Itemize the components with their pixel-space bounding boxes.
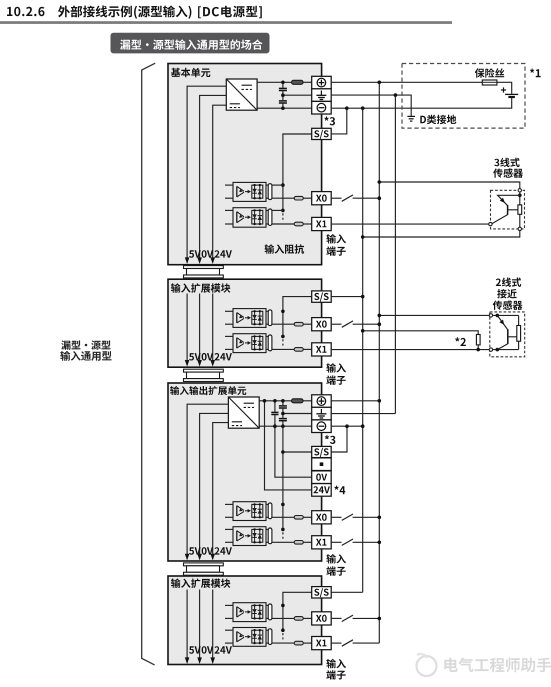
input circuit B4-X1: bottom wire stub (225, 642, 233, 644)
B3 +24V line (259, 400, 291, 402)
node: ground bus top (394, 93, 398, 97)
label *4 (334, 486, 345, 495)
extension cable connector 2 (184, 369, 224, 372)
label *2 (455, 337, 466, 346)
wire: 24V bus to 2-wire sensor (379, 314, 489, 316)
input circuit B4-X1: top wire stub (225, 629, 233, 631)
label: 3-wire sensor (494, 158, 519, 167)
input circuit B4-X1: capacitor (268, 629, 272, 645)
extension cable connector 1 (184, 266, 224, 269)
input circuit B3-X1: diode D1 (254, 529, 256, 542)
input circuit B1-X1: diode D2 (259, 210, 261, 224)
input circuit B1-X0: series resistor (272, 197, 294, 199)
wire: battery - to minus terminal (331, 97, 512, 108)
title: base unit (171, 68, 211, 77)
label: 2-wire proximity sensor (496, 278, 521, 287)
title: I/O expansion unit (170, 386, 246, 395)
B1 +24V line (plus terminal wire) (257, 81, 291, 83)
input circuit B3-X1: LED pair box (252, 529, 263, 542)
input circuit B2-X0: series resistor (272, 323, 294, 325)
bleeder resistor circuit *2 (363, 331, 479, 335)
terminal X0 B1 (312, 192, 332, 205)
node: B1 rail/+24V (281, 81, 285, 85)
label 5V B4 (189, 646, 201, 653)
wire: 0V bus to 3-wire sensor 0V (363, 231, 520, 237)
input circuit B4-X0: optocoupler box (233, 603, 266, 622)
2w sensor transistor Q2 (497, 315, 507, 329)
dashed box *1 external supply (402, 64, 525, 129)
input circuit B3-X0: optocoupler box (233, 502, 266, 521)
terminal +V B1 (312, 76, 332, 89)
2w sensor internal wiring (493, 314, 519, 316)
2w sensor resistor (517, 326, 521, 342)
input circuit B4-X1: diode D2 (259, 630, 261, 643)
wire: B3 S/S jumper to minus line (331, 426, 347, 452)
B4 rail continuation dashes (282, 633, 284, 639)
wire: 24V bus to 3-wire sensor supply (379, 182, 520, 189)
node: B1 cap midpoint/ground (281, 93, 285, 97)
node: B3 common/S-S (281, 450, 285, 454)
terminal -V B3 (312, 420, 332, 433)
node: B1 rail/0V (281, 106, 285, 110)
input circuit B1-X1: top wire stub (225, 209, 233, 211)
B3 0V service wire to 0V terminal (275, 426, 312, 477)
input circuit B3-X0: diode D2 (259, 504, 261, 517)
label 24V B4 (215, 646, 232, 653)
input circuit B4-X0: capacitor (268, 604, 272, 620)
terminal X0 B3 (312, 511, 332, 524)
terminal X0 B2 (312, 318, 332, 331)
node: bleeder/0V bus (361, 329, 365, 333)
input circuit B2-X1: capacitor (268, 335, 272, 351)
input circuit B1-X1: optocoupler box (233, 208, 266, 228)
wire: B1 X1 to 3-wire sensor output (331, 223, 489, 225)
node: 3w sensor internal (518, 194, 522, 198)
input circuit B3-X1: optocoupler box (233, 527, 266, 546)
label: class-D grounding (420, 115, 456, 124)
input circuit B2-X0: LED pair box (252, 311, 263, 324)
input circuit B1-X1: bottom wire stub (225, 223, 233, 225)
input circuit B1-X1: series resistor (272, 223, 294, 225)
node: B3 cap midpoint/ground (281, 412, 285, 416)
input circuit B3-X1: phototransistor (236, 531, 238, 541)
label 5V B1 (189, 250, 201, 257)
B1 filter capacitors C1 C2 on internal rail (282, 82, 284, 87)
input circuit B1-X0: diode D1 (254, 185, 256, 198)
B4 S/S internal common rail (283, 592, 312, 630)
terminal S/S B1 (312, 128, 332, 139)
input circuit B1-X0: phototransistor (236, 186, 238, 197)
section label box (111, 33, 270, 54)
title: input expansion module 2 (171, 283, 230, 293)
input circuit B2-X1: diode D1 (254, 336, 256, 349)
node: B3 X1/24V bus (378, 541, 382, 545)
label 5V B3 (189, 547, 201, 554)
input circuit B1-X1: diode D1 (254, 210, 256, 224)
B3 filter caps on internal rail (282, 401, 284, 405)
node: B3 rail/0V (281, 424, 285, 428)
wire: B1 S/S jumper to minus line (331, 108, 347, 134)
B1 X0 circuit top wire (272, 184, 283, 186)
bus: ground vertical (394, 95, 396, 414)
input circuit B4-X1: optocoupler box (233, 628, 266, 647)
B3 ground tap wire (283, 413, 312, 415)
node: B1 common/input2 (281, 209, 285, 213)
wire: B3 - terminal to 0V bus (331, 425, 363, 427)
wire: B3 ground to ground bus (331, 413, 395, 415)
label: fuse (475, 68, 504, 78)
node: B1 common/input1 (281, 183, 285, 187)
input circuit B2-X1: LED pair box (252, 336, 263, 349)
input circuit B2-X0: capacitor (268, 310, 272, 326)
watermark logo circle (417, 656, 437, 676)
label *3 B3 (325, 435, 336, 444)
B1 0V line (minus terminal wire) (257, 107, 312, 109)
terminal S/S B3 (312, 446, 332, 457)
input circuit B1-X0: capacitor (268, 184, 272, 200)
B2 rail continuation dashes (282, 339, 284, 345)
label 24V B2 (215, 353, 232, 360)
node: 2w internal top (496, 314, 500, 318)
wire: B1 +24V to fuse and battery + (331, 81, 482, 83)
label 0V B3 (202, 547, 214, 555)
input circuit B1-X0: LED pair box (252, 185, 263, 198)
left label: sink/source universal input (61, 340, 110, 349)
node: sensor supply tap (378, 180, 382, 184)
input circuit B3-X1: LED arrow (245, 535, 248, 537)
terminal S/S B2 (312, 291, 332, 302)
input circuit B2-X0: LED arrow (245, 317, 248, 319)
B3 rail continuation dashes (282, 532, 284, 538)
B1 rail continuation dashes (282, 213, 284, 220)
node: B3 S/S jumper (345, 424, 349, 428)
page title (7, 7, 45, 17)
node: B3 24V service tap (263, 399, 267, 403)
terminal S/S B4 (312, 587, 332, 598)
node: B3 X0/24V bus (378, 516, 382, 520)
node: X0/24V bus (378, 196, 382, 200)
input circuit B3-X1: top wire stub (225, 528, 233, 530)
input circuit B1-X0: bottom wire stub (225, 197, 233, 199)
terminal 0V B3 (312, 471, 332, 484)
node: B3 cap/+ (273, 399, 277, 403)
B3 smoothing capacitor across supply (274, 401, 276, 412)
node: 2w sensor supply tap (378, 314, 382, 318)
label: input terminals B4 (326, 659, 346, 669)
wire: B3 X0 switch to 24V bus (331, 516, 341, 518)
input circuit B4-X0: top wire stub (225, 604, 233, 606)
input circuit B4-X0: series resistor (272, 617, 294, 619)
label: input impedance (265, 244, 305, 254)
label: input terminals B2 (326, 363, 346, 373)
wire: fuse to battery (497, 82, 512, 93)
wire: B2 X1 to 2-wire sensor (331, 349, 489, 351)
3w sensor 0V pin (518, 227, 521, 230)
wire: B1 X0 switch to 24V bus (331, 197, 341, 199)
input circuit B3-X0: top wire stub (225, 503, 233, 505)
wire: B2 S/S to 0V bus (331, 296, 363, 298)
node: B2 S/S / 0V bus (361, 295, 365, 299)
wire: B3 + terminal to 24V bus (331, 400, 379, 402)
label 0V B2 (202, 353, 214, 361)
input circuit B3-X0: phototransistor (236, 506, 238, 516)
input circuit B1-X1: phototransistor (236, 212, 238, 223)
input circuit B2-X0: diode D1 (254, 311, 256, 324)
input circuit B1-X0: diode D2 (259, 185, 261, 198)
terminal 24V B3 (312, 484, 332, 497)
bus: 0V vertical (362, 108, 364, 592)
B3 5V/0V/24V feed lines (187, 404, 228, 554)
node: B2 common/input1 (281, 310, 285, 314)
3w sensor load resistor (518, 205, 522, 214)
terminal -V B1 (312, 101, 332, 114)
B3 filter resistor (292, 399, 304, 403)
input circuit B2-X1: phototransistor (236, 338, 238, 348)
input circuit B3-X0: series resistor (272, 516, 294, 518)
input circuit B1-X0: optocoupler box (233, 182, 266, 201)
wire: B4 S/S to 0V bus end (331, 591, 363, 593)
label 0V B1 (202, 250, 214, 258)
3w sensor + pin (518, 189, 521, 192)
input circuit B4-X1: phototransistor (236, 632, 238, 642)
terminal X0 B4 (312, 612, 332, 625)
bus: 24V vertical (378, 82, 380, 643)
B1 5V/0V/24V feed lines (187, 86, 226, 258)
input circuit B1-X1: capacitor (268, 209, 272, 225)
wire: B2 X0 switch to 24V bus (331, 323, 341, 325)
input circuit B4-X0: LED arrow (245, 611, 248, 613)
node: B3 rail/+ (281, 399, 285, 403)
terminal X1 B3 (312, 536, 332, 549)
input circuit B2-X1: diode D2 (259, 336, 261, 349)
power supply unit (228, 397, 259, 428)
input circuit B4-X1: LED arrow (245, 636, 248, 638)
fuse F1 (482, 80, 497, 85)
input circuit B1-X1: LED arrow (245, 216, 248, 218)
3w sensor transistor Q1 (498, 195, 520, 205)
B1 X1 circuit top wire (272, 209, 283, 211)
input circuit B3-X1: diode D2 (259, 529, 261, 542)
terminal +V B3 (312, 395, 332, 408)
title underline rule (0, 21, 452, 24)
input circuit B4-X1: series resistor (272, 642, 294, 644)
input circuit B3-X0: diode D1 (254, 504, 256, 517)
B3 S/S internal common rail (282, 426, 284, 529)
input circuit B1-X1: LED pair box (252, 210, 263, 224)
node: 24V bus top (378, 81, 382, 85)
node: B2 common/input2 (281, 335, 285, 339)
B1 filter resistor (292, 80, 304, 84)
terminal X1 B1 (312, 217, 332, 230)
label: input terminals B1 (326, 234, 346, 244)
input circuit B2-X0: phototransistor (236, 313, 238, 323)
input circuit B1-X0: top wire stub (225, 184, 233, 186)
input circuit B3-X0: LED arrow (245, 510, 248, 512)
node: B3 common/input2 (281, 528, 285, 532)
label 24V B1 (215, 250, 232, 257)
input circuit B2-X1: LED arrow (245, 342, 248, 344)
node: bleeder/X1 wire (476, 348, 480, 352)
input circuit B2-X0: optocoupler box (233, 309, 266, 328)
block: base unit (基本单元) (168, 64, 322, 265)
block: input expansion module 2 (168, 279, 322, 367)
3-wire sensor dashed box (491, 190, 525, 229)
input circuit B2-X1: series resistor (272, 348, 294, 350)
input circuit B2-X0: diode D2 (259, 311, 261, 324)
input circuit B2-X1: bottom wire stub (225, 348, 233, 350)
input circuit B3-X0: capacitor (268, 503, 272, 519)
B3 0V line (259, 425, 312, 427)
power supply unit (226, 79, 257, 110)
label: input terminals B3 (326, 554, 346, 564)
battery B+ (505, 93, 518, 95)
3w sensor internal + rail (519, 192, 521, 205)
bleeder resistor R*2 (476, 335, 480, 345)
input circuit B3-X1: capacitor (268, 528, 272, 544)
wire: B4 X0 switch to 24V bus (331, 617, 341, 619)
terminal X1 B2 (312, 343, 332, 356)
label *1 (530, 69, 541, 78)
wire: B1 ground to earth (331, 95, 411, 116)
terminal ground B1 (312, 89, 332, 102)
node: B4 common/input1 (281, 604, 285, 608)
battery plus sign (501, 89, 506, 91)
input circuit B2-X1: optocoupler box (233, 334, 266, 353)
node: S/S jumper B1 (345, 106, 349, 110)
terminal dot B3 (312, 458, 332, 471)
input circuit B2-X0: bottom wire stub (225, 323, 233, 325)
terminal ground B3 (312, 407, 332, 420)
label 0V B4 (202, 646, 214, 654)
input circuit B3-X1: bottom wire stub (225, 541, 233, 543)
watermark text (444, 658, 551, 673)
input circuit B3-X0: bottom wire stub (225, 516, 233, 518)
input circuit B4-X1: diode D1 (254, 630, 256, 643)
input circuit B3-X1: series resistor (272, 541, 294, 543)
input circuit B2-X0: top wire stub (225, 310, 233, 312)
input circuit B4-X0: phototransistor (236, 607, 238, 617)
3w sensor output pin (489, 222, 492, 225)
node: 2w internal bottom (496, 348, 500, 352)
input circuit B3-X0: LED pair box (252, 504, 263, 517)
input circuit B4-X0: bottom wire stub (225, 617, 233, 619)
B1 S/S internal common rail (283, 134, 312, 210)
input circuit B4-X1: LED pair box (252, 630, 263, 643)
B4 5V/0V/24V rails (186, 590, 188, 659)
left brace bracket (142, 63, 156, 665)
wire: B3 X1 switch to 24V bus (331, 541, 341, 543)
label 24V B3 (215, 547, 232, 554)
B3 24V service wire to 24V terminal (265, 401, 312, 490)
block: I/O expansion unit (168, 383, 322, 561)
node: B4 X0/24V bus (378, 617, 382, 621)
label 5V B2 (189, 353, 201, 360)
block: input expansion module 4 (168, 576, 322, 665)
node: 0V bus top (361, 106, 365, 110)
terminal X1 B4 (312, 637, 332, 650)
2-wire sensor dashed box (490, 312, 525, 357)
title: input expansion module 4 (171, 578, 230, 588)
node: B4 common/input2 (281, 628, 285, 632)
label *3 B1 (324, 117, 335, 126)
input circuit B4-X0: diode D1 (254, 605, 256, 618)
node: B3 cap/0V (273, 424, 277, 428)
input circuit B4-X0: LED pair box (252, 605, 263, 618)
extension cable connector 3 (184, 563, 224, 566)
2w sensor out pin (489, 348, 492, 351)
2w sensor + pin (489, 314, 492, 317)
node: B2 X0/24V bus (378, 322, 382, 326)
B2 5V/0V/24V rails (186, 294, 188, 361)
input circuit B2-X1: top wire stub (225, 335, 233, 337)
node: B3 common/input1 (281, 503, 285, 507)
wire: B4 X1 switch to 24V bus end (331, 642, 341, 644)
B1 ground tap wire (283, 94, 312, 96)
B2 S/S internal common rail (283, 297, 312, 337)
input circuit B4-X0: diode D2 (259, 605, 261, 618)
input circuit B1-X0: LED arrow (245, 191, 248, 193)
node: B3 -/0V bus (361, 424, 365, 428)
node: B3 +/24V bus (378, 399, 382, 403)
node: sensor 0V tap (361, 235, 365, 239)
